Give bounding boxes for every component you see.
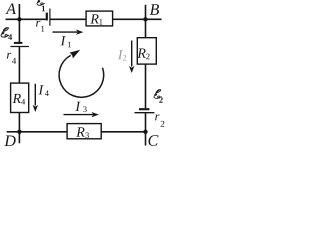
wire left segment R4 to node D: [18, 113, 20, 132]
resistor R3 box: [67, 124, 101, 139]
wire top segment A to battery E1: [6, 18, 46, 20]
current I1 arrow: [52, 30, 83, 35]
node B label: [150, 4, 159, 15]
node B junction dot: [143, 17, 147, 21]
battery E1 long thin plate: [49, 9, 51, 26]
resistor R4 label: [13, 94, 26, 105]
battery E4 short thick plate: [14, 42, 23, 44]
wire bottom segment D to resistor R3: [19, 131, 67, 133]
wire cross arm above node B: [145, 5, 147, 20]
resistor R3 label: [76, 127, 89, 138]
resistor R2 box: [137, 38, 156, 64]
loop direction circular arrow: [59, 50, 104, 97]
node D label: [4, 136, 15, 147]
resistance label r4: [7, 53, 16, 64]
current I1 label: [61, 36, 71, 47]
battery E2 long thin plate: [135, 112, 155, 114]
node A label: [5, 3, 16, 14]
battery E1 short thick plate: [46, 13, 48, 21]
resistor R2 label: [137, 49, 149, 60]
current I4 label: [38, 85, 48, 96]
EMF label E4: [1, 28, 12, 40]
current I2 label: [118, 50, 127, 60]
resistance label r2: [155, 115, 164, 127]
wire right segment R2 to battery E2: [145, 64, 147, 108]
current I3 label: [75, 102, 86, 112]
wire right segment B to resistor R2: [145, 19, 147, 37]
resistor R1 label: [90, 14, 102, 24]
resistor R4 box: [11, 83, 29, 112]
resistance label r1: [36, 21, 44, 32]
wire top segment battery E1 to resistor R1: [51, 18, 87, 20]
wire left segment E4 to resistor R4: [18, 47, 20, 83]
resistor R1 box: [86, 11, 113, 26]
wire cross arm below node C: [145, 132, 147, 146]
wire left segment A to battery E4: [18, 19, 20, 42]
current I3 arrow: [64, 112, 99, 117]
wire right segment E2 to node C: [145, 113, 147, 131]
node A junction dot: [17, 17, 21, 21]
EMF label E1: [37, 0, 45, 11]
node D junction dot: [17, 130, 21, 134]
node C label: [148, 135, 158, 146]
EMF label E2: [154, 90, 163, 103]
node C junction dot: [143, 130, 147, 134]
battery E2 short thick plate: [139, 108, 149, 110]
current I2 arrow: [129, 41, 134, 74]
wire cross arm below node D: [18, 132, 20, 144]
wire bottom segment R3 to node C: [102, 131, 146, 133]
wire top segment R1 to node B: [113, 18, 162, 20]
current I4 arrow: [33, 84, 38, 112]
battery E4 long thin plate: [10, 46, 29, 48]
wire cross arm above node A: [18, 4, 20, 19]
wire bottom cross arm left of node D: [7, 131, 20, 133]
